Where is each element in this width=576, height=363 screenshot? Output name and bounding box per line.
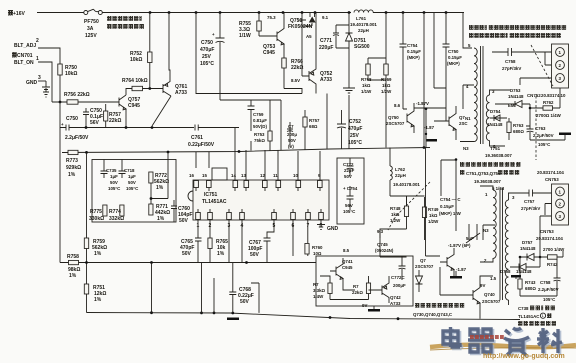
wire base rail y102 xyxy=(52,101,115,103)
svg-text:1kΩ: 1kΩ xyxy=(429,213,438,218)
box C772/C754 tall xyxy=(337,158,364,224)
svg-text:TL1451AC: TL1451AC xyxy=(518,314,540,319)
svg-text:R743: R743 xyxy=(525,280,536,285)
svg-text:C754 — C: C754 — C xyxy=(440,197,461,202)
resistor R743 680 xyxy=(518,279,536,296)
svg-text:105°C: 105°C xyxy=(543,297,556,302)
svg-text:0.22μF/50V: 0.22μF/50V xyxy=(188,142,215,148)
svg-text:19.40178.001: 19.40178.001 xyxy=(393,182,420,187)
wire top rail right of L761 xyxy=(373,12,464,14)
svg-text:Q745: Q745 xyxy=(377,242,388,247)
svg-text:C761: C761 xyxy=(191,135,203,141)
svg-text:C758: C758 xyxy=(540,280,551,285)
svg-text:22kΩ: 22kΩ xyxy=(291,65,303,71)
capacitor C750 0.1uF 56V xyxy=(83,108,103,128)
junction dot y109 xyxy=(425,107,428,110)
resistor R763 680 xyxy=(507,118,524,140)
resistor R758 98k (series in rail y262) xyxy=(67,254,80,279)
svg-text:R758: R758 xyxy=(67,254,79,260)
svg-text:680Ω: 680Ω xyxy=(525,286,536,291)
svg-text:-1.87: -1.87 xyxy=(456,267,467,272)
svg-text:22μF: 22μF xyxy=(344,168,355,173)
svg-text:R757: R757 xyxy=(309,118,320,123)
svg-text:19.40178.001: 19.40178.001 xyxy=(350,22,377,27)
svg-text:0.15μF: 0.15μF xyxy=(407,49,421,54)
svg-text:1kΩ: 1kΩ xyxy=(362,83,371,88)
resistor R775 330k xyxy=(89,205,107,222)
watermark glyph shadow layer xyxy=(445,329,564,357)
junction dots on top rail xyxy=(149,11,448,14)
svg-text:75.3: 75.3 xyxy=(267,15,276,20)
svg-text:25V: 25V xyxy=(202,54,212,60)
svg-text:1%: 1% xyxy=(157,216,165,222)
capacitor P5 left of T752 xyxy=(466,224,480,243)
svg-text:50V: 50V xyxy=(288,138,296,143)
svg-text:D753: D753 xyxy=(510,88,521,93)
fuse PF750 value label xyxy=(84,19,99,39)
svg-text:50V: 50V xyxy=(179,218,189,224)
transistor Q751 FK05024N xyxy=(288,13,316,40)
svg-text:19.36038.007: 19.36038.007 xyxy=(474,179,501,184)
svg-text:1/1W: 1/1W xyxy=(361,89,372,94)
svg-text:A733: A733 xyxy=(175,90,187,96)
connector CN701 pin 1 BLT_ON xyxy=(14,56,52,102)
svg-text:75kΩ: 75kΩ xyxy=(254,138,265,143)
svg-text:Q750: Q750 xyxy=(388,115,399,120)
IC751 bottom pin boxes xyxy=(196,209,324,220)
svg-text:1.5: 1.5 xyxy=(490,276,497,281)
svg-text:14: 14 xyxy=(231,173,236,178)
transistor Q753 C945 xyxy=(259,13,284,57)
svg-text:1%: 1% xyxy=(94,251,102,257)
svg-text:10kΩ: 10kΩ xyxy=(65,71,77,77)
svg-text:1μF: 1μF xyxy=(110,174,118,179)
wire Q745 column xyxy=(380,229,407,257)
connector CN753 xyxy=(552,184,569,225)
svg-text:R756 22kΩ: R756 22kΩ xyxy=(64,92,90,98)
wires IC top pins up xyxy=(196,128,320,180)
svg-text:2700 1/4W: 2700 1/4W xyxy=(543,247,565,252)
svg-text:10Ω: 10Ω xyxy=(313,251,322,256)
svg-text:C750: C750 xyxy=(448,49,459,54)
svg-text:R764 10kΩ: R764 10kΩ xyxy=(122,78,148,84)
capacitor C754 MKP left column xyxy=(439,197,462,216)
T752 pin labels xyxy=(483,192,515,281)
svg-text:20.83174.104: 20.83174.104 xyxy=(536,236,563,241)
svg-text:C757: C757 xyxy=(524,199,535,204)
svg-text:C738: C738 xyxy=(518,306,529,311)
svg-text:http://www.go-gudq.com: http://www.go-gudq.com xyxy=(483,353,565,360)
transformer T752 ref label xyxy=(474,179,505,191)
ground small x517 xyxy=(511,275,521,279)
op-amp IC751 TL1451AC body xyxy=(188,168,329,220)
svg-text:680Ω: 680Ω xyxy=(513,129,524,134)
watermark small red text xyxy=(470,335,504,339)
svg-text:A5: A5 xyxy=(306,34,312,39)
svg-text:22μH: 22μH xyxy=(358,28,369,33)
svg-text:5μF: 5μF xyxy=(466,236,474,241)
svg-text:C751,Q753,Q756: C751,Q753,Q756 xyxy=(466,171,501,176)
svg-text:C735: C735 xyxy=(106,168,117,173)
svg-text:C945: C945 xyxy=(128,103,140,109)
svg-text:R742: R742 xyxy=(547,262,558,267)
wire x327 drop xyxy=(326,94,328,149)
svg-text:C7: C7 xyxy=(288,124,294,129)
svg-text:+: + xyxy=(212,32,215,37)
svg-text:2700Ω 1/4W: 2700Ω 1/4W xyxy=(536,113,562,118)
capacitor C758b 2.2uF/50V xyxy=(520,259,561,302)
warning note top-left (CJK) xyxy=(107,16,144,29)
capacitor C760 xyxy=(171,200,192,224)
svg-text:(MKP): (MKP) xyxy=(407,55,420,60)
svg-text:D757: D757 xyxy=(522,240,533,245)
svg-text:FK05024N: FK05024N xyxy=(288,24,313,30)
capacitor C758 27pF/3kV xyxy=(492,48,552,71)
svg-text:C763: C763 xyxy=(535,126,546,131)
svg-text:200μF: 200μF xyxy=(393,283,406,288)
transformer T752 right winding xyxy=(505,200,508,300)
wire Q757 collector to R764 xyxy=(126,89,132,96)
svg-text:11: 11 xyxy=(273,173,278,178)
svg-text:R7: R7 xyxy=(313,282,319,287)
svg-text:1%: 1% xyxy=(217,251,225,257)
resistor R757 68ohm xyxy=(303,110,320,150)
wire left column x62 xyxy=(59,128,61,263)
resistor R760 10ohm xyxy=(305,244,323,257)
resistor R7xx 3.3k xyxy=(313,276,332,300)
svg-text:8.5: 8.5 xyxy=(343,248,350,253)
resistor R764 xyxy=(122,78,160,91)
wire Q756 base/emitter xyxy=(434,109,456,140)
svg-text:GND: GND xyxy=(26,80,38,86)
diode D7xx right of B2 xyxy=(416,270,423,292)
svg-text:1/4W: 1/4W xyxy=(313,294,324,299)
resistor R772 562k xyxy=(149,172,169,191)
svg-text:68Ω: 68Ω xyxy=(309,124,318,129)
svg-text:1/2W: 1/2W xyxy=(428,219,439,224)
wire Q740 connections xyxy=(426,256,494,319)
wire CN752 pin2 xyxy=(520,52,552,85)
svg-text:2SC5707: 2SC5707 xyxy=(415,264,434,269)
svg-text:1N4148: 1N4148 xyxy=(520,246,536,251)
wire x196 from rail down xyxy=(196,13,302,94)
svg-text:2.2μF/50V: 2.2μF/50V xyxy=(65,135,89,141)
connector CN753 label xyxy=(536,229,563,241)
wire x463 to T751 pin5 xyxy=(463,13,472,49)
resistor R742 xyxy=(540,251,563,267)
junction dots mid rail xyxy=(85,126,154,129)
wire bottom-most rail left xyxy=(87,313,521,320)
transformer T751 right winding xyxy=(486,95,489,141)
svg-text:8.5V: 8.5V xyxy=(291,78,300,83)
T751 pin stub wires xyxy=(460,85,510,146)
transistor Q752 A733 xyxy=(302,13,332,94)
svg-text:C750: C750 xyxy=(66,116,78,122)
connector CN752 xyxy=(552,44,569,88)
svg-text:N3: N3 xyxy=(463,146,469,151)
svg-text:BLT_ON: BLT_ON xyxy=(14,60,34,66)
svg-text:SG500: SG500 xyxy=(354,44,370,50)
transistor Q740 2SC5707 xyxy=(466,281,501,310)
svg-text:(05024N): (05024N) xyxy=(375,248,394,253)
connector CN701 pin 3 GND xyxy=(26,75,46,86)
wire stub x259 xyxy=(251,283,259,313)
svg-text:50V: 50V xyxy=(250,252,260,258)
fuse PF750 xyxy=(84,9,103,14)
IC751 top pin numbers xyxy=(189,173,321,178)
svg-text:22kΩ: 22kΩ xyxy=(352,290,363,295)
node +16V input label xyxy=(7,10,25,17)
junction dots y257 xyxy=(519,256,542,259)
svg-text:1%: 1% xyxy=(156,185,164,191)
svg-text:332kΩ: 332kΩ xyxy=(109,216,124,222)
note C738 line3 xyxy=(518,321,556,326)
junction x349 y147 continue xyxy=(348,95,350,149)
svg-text:BLT_ADJ: BLT_ADJ xyxy=(14,43,36,49)
transistor Q757 C945 xyxy=(115,95,140,112)
resistor R7xx 22k xyxy=(352,276,371,300)
watermark ribbon xyxy=(430,345,576,348)
junction dot x530 xyxy=(529,107,532,110)
svg-text:A733: A733 xyxy=(390,301,401,306)
wire Q761 collector diagonal to rail xyxy=(152,96,171,126)
svg-text:R748: R748 xyxy=(390,206,401,211)
svg-text:IC751: IC751 xyxy=(204,192,218,198)
resistor R769 1k xyxy=(368,64,392,148)
capacitor C750 0.15uF MKP (series x446) xyxy=(443,13,463,110)
note C738 line2 xyxy=(518,313,551,319)
svg-text:1/2W: 1/2W xyxy=(381,89,392,94)
svg-text:50V: 50V xyxy=(128,180,136,185)
resistor R756 xyxy=(64,92,90,104)
junction dots rail y152 xyxy=(85,146,425,154)
transformer T752 core xyxy=(500,188,503,300)
svg-text:C752: C752 xyxy=(349,119,361,125)
svg-text:2: 2 xyxy=(36,38,39,44)
svg-text:50V(D): 50V(D) xyxy=(253,124,267,129)
wires IC bottom pins down xyxy=(198,220,321,263)
svg-text:N1: N1 xyxy=(465,116,471,121)
ground at IC pin8 xyxy=(317,225,339,233)
svg-text:T751: T751 xyxy=(490,146,501,151)
svg-text:(MKP) 1/W: (MKP) 1/W xyxy=(439,211,462,216)
capacitor C761 0.22uF (series) xyxy=(188,125,239,149)
note T751 short CJK line2 xyxy=(460,170,519,176)
transformer T752 left winding xyxy=(493,190,496,258)
wire bottom rail y262 xyxy=(60,262,316,264)
svg-text:C758: C758 xyxy=(505,59,516,64)
wire CN753 pin2/3 xyxy=(540,204,552,258)
svg-text:3.3kΩ: 3.3kΩ xyxy=(313,288,326,293)
sub-circuit box B2 xyxy=(316,256,413,306)
svg-text:3A: 3A xyxy=(87,26,94,32)
transformer T751 left winding xyxy=(474,48,477,142)
svg-text:105°C: 105°C xyxy=(108,186,121,191)
ground below B2 xyxy=(368,306,380,312)
resistor R774 332k xyxy=(109,205,124,222)
IC751 bottom pin numbers xyxy=(197,223,323,229)
svg-text:1: 1 xyxy=(542,314,544,318)
resistor R759 562k xyxy=(84,238,107,284)
svg-text:R753: R753 xyxy=(254,132,265,137)
svg-text:R749: R749 xyxy=(428,207,439,212)
wire mid rail y127 xyxy=(86,127,194,129)
svg-text:1%: 1% xyxy=(94,297,102,303)
svg-text:125V: 125V xyxy=(85,33,97,39)
connector CN753 upper ref label xyxy=(537,170,564,182)
junction dots bottom rail xyxy=(150,311,399,320)
resistor R768 1k xyxy=(361,13,386,95)
resistor R771 442k xyxy=(149,204,170,222)
junction node at x60 y102 xyxy=(59,101,62,104)
resistor R751 12k xyxy=(84,284,106,313)
transistor Q761 A733 xyxy=(160,78,187,96)
wire x520 down xyxy=(519,257,521,279)
svg-text:Q730,Q740,Q743,C: Q730,Q740,Q743,C xyxy=(413,312,453,317)
svg-text:2.2μF/50V: 2.2μF/50V xyxy=(538,287,559,292)
resistor R765 10k xyxy=(208,238,228,263)
dashed leader to B2 xyxy=(388,182,430,230)
note C738 line1 xyxy=(518,306,555,312)
svg-text:C754: C754 xyxy=(407,43,418,48)
IC751 top pin boxes xyxy=(194,181,322,192)
wire x424 down xyxy=(423,13,425,148)
capacitor C763 2.2uF/50V xyxy=(526,126,554,147)
svg-text:Q741: Q741 xyxy=(342,259,353,264)
svg-text:Q7: Q7 xyxy=(420,258,426,263)
ground above Q740 xyxy=(450,271,462,279)
resistor R766 22k xyxy=(282,50,304,89)
svg-text:R775: R775 xyxy=(90,209,102,215)
svg-text:-1.87: -1.87 xyxy=(424,125,435,130)
svg-text:C771: C771 xyxy=(320,38,332,44)
junction dots rail y262 xyxy=(85,261,248,264)
svg-text:C718: C718 xyxy=(124,168,135,173)
svg-text:50V: 50V xyxy=(110,180,118,185)
ground below D751 xyxy=(343,88,355,93)
svg-text:20.83174.104: 20.83174.104 xyxy=(537,170,564,175)
svg-text:1N4148: 1N4148 xyxy=(516,269,532,274)
junction dot R764/R752 xyxy=(148,87,151,90)
wire Q761 emitter up xyxy=(169,13,170,79)
wire into box from rail xyxy=(167,152,169,160)
resistor R762 2700 xyxy=(530,88,562,118)
svg-text:22μH: 22μH xyxy=(395,173,406,178)
svg-text:929kΩ: 929kΩ xyxy=(66,165,81,171)
capacitor C7xx 200uF xyxy=(287,122,297,149)
capacitor C754 0.15uF MKP (series x403) xyxy=(400,13,422,110)
wire left of T752 xyxy=(426,148,457,257)
svg-text:R768: R768 xyxy=(361,77,372,82)
svg-text:105°C: 105°C xyxy=(343,209,356,214)
transistor Q750 2SC5707 xyxy=(386,103,414,133)
watermark glyphs 电器资料 xyxy=(443,327,562,355)
capacitor C772C 200uF xyxy=(391,256,406,288)
svg-text:105°C: 105°C xyxy=(348,140,362,146)
svg-text:CN752: CN752 xyxy=(527,93,541,98)
svg-text:1μF: 1μF xyxy=(128,174,136,179)
capacitor C759 label xyxy=(253,112,267,129)
svg-text:CN753: CN753 xyxy=(540,229,554,234)
inductor L761 label xyxy=(350,16,377,33)
svg-text:1%: 1% xyxy=(69,273,77,279)
inductor L762 xyxy=(390,148,420,197)
svg-text:2SC5707: 2SC5707 xyxy=(482,299,501,304)
diode D753 1N4148 xyxy=(508,88,530,108)
svg-text:105°C: 105°C xyxy=(538,142,551,147)
svg-text:470μF: 470μF xyxy=(348,126,362,132)
resistor R753 75k xyxy=(254,131,272,143)
connector CN752 label xyxy=(527,93,566,98)
svg-text:19.36038.007: 19.36038.007 xyxy=(485,153,512,158)
svg-text:50V: 50V xyxy=(344,174,352,179)
capacitor C750 2.2uF label xyxy=(65,116,89,141)
wire right column x530 xyxy=(529,104,531,126)
svg-text:1/1W: 1/1W xyxy=(239,33,251,39)
resistor R748 1k xyxy=(390,196,409,229)
ground right of C763 xyxy=(530,133,571,141)
svg-text:8.6: 8.6 xyxy=(394,103,401,108)
resistor R755 3.3ohm xyxy=(239,13,261,40)
wire x302 down xyxy=(284,20,302,94)
note T751 short CJK xyxy=(460,162,520,167)
connector CN701 label xyxy=(11,52,33,59)
svg-text:220μF: 220μF xyxy=(319,45,333,51)
junction dot x456 xyxy=(455,158,458,161)
ground bar below C768 xyxy=(227,318,239,321)
svg-text:C772: C772 xyxy=(343,162,354,167)
svg-text:+: + xyxy=(61,122,64,127)
svg-text:N3: N3 xyxy=(483,228,489,233)
svg-text:10kΩ: 10kΩ xyxy=(130,57,142,63)
svg-text:C945: C945 xyxy=(342,265,353,270)
capacitor C757 27pF/3kV xyxy=(521,190,552,212)
transistor Q756 2SC5707 xyxy=(444,106,468,136)
svg-text:0.15μF: 0.15μF xyxy=(448,55,462,60)
svg-text:C759: C759 xyxy=(253,112,264,117)
inductor L761 xyxy=(354,10,373,13)
watermark ribbon lower edge xyxy=(430,348,576,350)
transistor Q744 2SC5707 xyxy=(415,248,454,276)
svg-text:R763: R763 xyxy=(513,123,524,128)
wire y109 xyxy=(414,108,446,148)
svg-text:+ C754: + C754 xyxy=(343,186,358,191)
svg-text:Q742: Q742 xyxy=(390,295,401,300)
ground near R756 xyxy=(43,88,49,97)
wire C771/D751 join xyxy=(336,25,349,88)
resistor R749 1k xyxy=(422,197,439,240)
diode D751 zener xyxy=(346,13,370,56)
wire top rail left xyxy=(37,12,84,14)
svg-text:9V: 9V xyxy=(480,283,485,288)
svg-text:0.15μF: 0.15μF xyxy=(440,204,454,209)
svg-text:R769: R769 xyxy=(381,77,392,82)
svg-text:L761: L761 xyxy=(356,16,367,21)
transistor Q742 A733 xyxy=(369,276,402,306)
wire top rail main xyxy=(102,12,351,14)
T751 pin numbers xyxy=(463,43,496,151)
svg-text:GND: GND xyxy=(327,226,339,232)
capacitor C768 0.22uF xyxy=(229,263,254,314)
note L762 CJK line1 xyxy=(415,303,464,308)
svg-text:(MKP): (MKP) xyxy=(447,61,460,66)
svg-text:C772C: C772C xyxy=(391,275,405,280)
ground bar mid right xyxy=(425,131,437,142)
wire column x86 xyxy=(86,153,88,239)
wire verticals to bottom rail xyxy=(152,263,215,313)
transformer T751 label xyxy=(485,146,512,158)
wire R772-R771 junction xyxy=(150,160,168,205)
